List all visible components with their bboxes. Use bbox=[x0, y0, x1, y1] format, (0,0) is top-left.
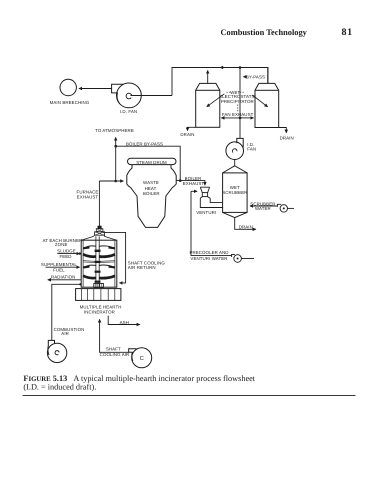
svg-text:SLUDGE: SLUDGE bbox=[57, 249, 76, 254]
svg-text:FAN EXHAUST: FAN EXHAUST bbox=[222, 112, 254, 117]
wire: venturi water riser from pump bbox=[191, 191, 232, 255]
svg-text:COOLING AIR: COOLING AIR bbox=[100, 352, 130, 357]
roof bbox=[81, 236, 117, 240]
ash discharge box bbox=[94, 284, 104, 288]
wire: right precip drain bbox=[279, 128, 287, 132]
svg-text:DRAIN: DRAIN bbox=[239, 224, 253, 229]
svg-text:81: 81 bbox=[342, 27, 353, 38]
central shaft bbox=[95, 236, 97, 287]
wire: scrubber water line (arrow left into vessel) bbox=[250, 205, 277, 207]
node: fan exhaust junction bbox=[239, 117, 242, 120]
base pedestal bbox=[76, 289, 121, 301]
vessel: wet scrubber bbox=[223, 173, 248, 213]
shaft collars bbox=[95, 250, 101, 252]
pump: scrubber water pump bbox=[277, 204, 294, 212]
node: bypass tie-in bbox=[179, 179, 182, 182]
wire: combustion air duct bbox=[52, 284, 80, 340]
svg-text:TO ATMOSPHERE: TO ATMOSPHERE bbox=[95, 128, 134, 133]
hearths bbox=[83, 246, 115, 283]
wire: fan discharge to main breeching (arrow left) bbox=[79, 88, 112, 90]
svg-text:FAN: FAN bbox=[247, 147, 256, 152]
fan: combustion air fan bbox=[47, 340, 66, 362]
svg-text:RADIATION: RADIATION bbox=[51, 274, 75, 279]
main breeching circle bbox=[60, 79, 76, 95]
svg-text:C: C bbox=[140, 355, 144, 362]
pump: precooler and venturi water pump bbox=[232, 254, 254, 262]
svg-text:ZONE: ZONE bbox=[55, 242, 68, 247]
arrow on top line pointing left bbox=[219, 66, 223, 70]
svg-text:PRECIPITATOR: PRECIPITATOR bbox=[221, 99, 254, 104]
wire: furnace exhaust riser from incinerator bbox=[98, 181, 100, 227]
wire: atmosphere riser with up arrow bbox=[115, 138, 117, 182]
svg-text:(I.D. = induced draft).: (I.D. = induced draft). bbox=[23, 382, 96, 391]
wire: main fan inlet from riser bbox=[131, 95, 173, 97]
vessel: waste heat boiler bbox=[127, 165, 176, 228]
wire: ash line bbox=[108, 316, 138, 325]
neck sides bbox=[94, 235, 105, 236]
wire: right precip inlet stub bbox=[267, 68, 269, 84]
fan: shaft cooling air fan C bbox=[129, 348, 152, 368]
vessel: right wet electrostatic precipitator bbox=[255, 83, 279, 127]
steam drum bbox=[128, 158, 177, 164]
svg-text:SHAFT: SHAFT bbox=[106, 347, 121, 352]
svg-text:STEAM DRUM: STEAM DRUM bbox=[136, 160, 167, 165]
wire: riser between precipitators bbox=[239, 68, 241, 118]
wire: venturi water feed (arrow right) bbox=[191, 190, 197, 192]
fan: scrubber I.D. fan bbox=[226, 138, 244, 159]
pointer dashes around WET bbox=[226, 91, 230, 93]
pointer into left precipitator bbox=[207, 94, 225, 107]
svg-text:SCRUBBER: SCRUBBER bbox=[222, 190, 247, 195]
node: bypass branch bbox=[114, 145, 117, 148]
wire: left precip drain bbox=[188, 127, 196, 129]
wire: scrubber fan discharge riser bbox=[239, 119, 241, 138]
svg-text:DRAIN: DRAIN bbox=[280, 136, 294, 141]
svg-text:AIR RETURN: AIR RETURN bbox=[128, 265, 156, 270]
svg-text:EXHAUST: EXHAUST bbox=[77, 194, 99, 199]
svg-text:WATER: WATER bbox=[255, 206, 271, 211]
incinerator: multiple hearth furnace bbox=[81, 226, 117, 288]
wire: boiler exhaust to venturi bbox=[176, 181, 205, 183]
node: furnace exhaust junction bbox=[114, 180, 117, 183]
vessel: left wet electrostatic precipitator bbox=[196, 83, 220, 127]
dashed link text to FAN EXHAUST bbox=[237, 105, 239, 113]
wire: shaft cooling air supply with up arrow bbox=[100, 321, 129, 353]
top boxes bbox=[95, 232, 105, 235]
svg-text:WASTE: WASTE bbox=[143, 180, 159, 185]
wire: fan exhaust header with arrows to both vessels bbox=[221, 117, 238, 119]
fan: main I.D. fan bbox=[112, 83, 142, 108]
wire: scrubber drain bbox=[235, 218, 252, 230]
svg-text:DRAIN: DRAIN bbox=[180, 132, 194, 137]
wire: riser to top line bbox=[172, 68, 268, 96]
svg-text:FUEL: FUEL bbox=[53, 267, 65, 272]
svg-text:AIR: AIR bbox=[61, 331, 69, 336]
scrubber bottom cone bbox=[223, 212, 248, 217]
svg-text:I.D. FAN: I.D. FAN bbox=[120, 109, 137, 114]
svg-text:MAIN BREECHING: MAIN BREECHING bbox=[50, 100, 90, 105]
svg-text:VENTURI WATER: VENTURI WATER bbox=[190, 256, 227, 261]
svg-text:VENTURI: VENTURI bbox=[196, 210, 216, 215]
shell outer bbox=[81, 240, 117, 287]
svg-text:INCINERATOR: INCINERATOR bbox=[84, 310, 115, 315]
pointer into right precipitator bbox=[252, 95, 267, 107]
svg-text:EXHAUST: EXHAUST bbox=[183, 181, 205, 186]
node: top line junction bbox=[239, 66, 242, 69]
caption rule bbox=[23, 395, 356, 397]
wire: furnace exhaust into boiler (arrow right) bbox=[99, 180, 123, 182]
svg-text:PRECOOLER AND: PRECOOLER AND bbox=[189, 250, 228, 255]
svg-text:BY-PASS: BY-PASS bbox=[246, 74, 265, 79]
svg-text:FEED: FEED bbox=[59, 254, 71, 259]
shell inner walls bbox=[82, 240, 84, 287]
svg-text:BOILER BY-PASS: BOILER BY-PASS bbox=[126, 141, 163, 146]
svg-text:ASH: ASH bbox=[120, 320, 129, 325]
svg-text:COMBUSTION: COMBUSTION bbox=[54, 327, 85, 332]
svg-text:BOILER: BOILER bbox=[143, 191, 160, 196]
venturi bbox=[200, 187, 222, 207]
wire: shaft cooling air return bbox=[103, 232, 126, 283]
wire: boiler by-pass line bbox=[116, 146, 181, 180]
wire: left precip vent with up arrow bbox=[207, 71, 209, 84]
svg-text:Combustion Technology: Combustion Technology bbox=[221, 28, 308, 37]
wire: fan to scrubber funnel bbox=[234, 160, 236, 166]
